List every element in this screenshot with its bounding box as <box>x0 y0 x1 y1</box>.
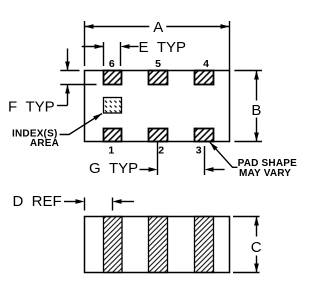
package body outline (top view) <box>85 71 230 142</box>
svg-text:F TYP: F TYP <box>8 99 55 116</box>
index area leader <box>60 114 103 135</box>
dimension E left-pointing arrowhead <box>121 44 130 49</box>
svg-text:MAY VARY: MAY VARY <box>239 168 291 179</box>
svg-text:4: 4 <box>203 58 209 70</box>
dimension E tick left <box>103 42 105 66</box>
pad 2 <box>149 129 168 142</box>
svg-text:5: 5 <box>155 58 161 70</box>
dimension E right-pointing arrowhead <box>95 44 104 49</box>
dimension F top extension line <box>60 70 79 72</box>
dimension B up arrowhead <box>254 71 259 80</box>
svg-text:6: 6 <box>109 58 115 70</box>
dimension D tick left <box>84 198 86 211</box>
dimension C line <box>256 217 258 273</box>
dimension C down arrowhead <box>254 264 259 273</box>
dimension G left-pointing arrow <box>205 167 214 172</box>
dimension E tick right <box>120 42 122 66</box>
pad 6 <box>104 71 122 85</box>
svg-text:A: A <box>153 19 163 36</box>
dimension E line left segment <box>82 46 104 48</box>
svg-text:G TYP: G TYP <box>89 160 138 177</box>
pad 4 <box>195 71 214 85</box>
dimension D left-pointing arrow <box>113 199 122 204</box>
dimension A extension line left <box>84 21 86 66</box>
svg-text:D REF: D REF <box>13 193 62 210</box>
dimension D tick right <box>112 198 114 211</box>
dimension E leader line <box>129 46 139 48</box>
index area arrowhead <box>93 114 102 121</box>
side view body outline <box>85 217 230 273</box>
pad shape arrowhead <box>210 142 218 150</box>
pad shape leader <box>210 142 238 167</box>
dimension G tick right <box>204 146 206 175</box>
dimension F bottom extension line <box>60 84 96 86</box>
svg-text:1: 1 <box>108 144 114 156</box>
dimension B line <box>256 71 258 142</box>
svg-text:E TYP: E TYP <box>139 39 187 56</box>
dimension F leader <box>57 105 68 107</box>
dimension B top extension line <box>234 70 262 72</box>
svg-text:3: 3 <box>196 144 202 156</box>
svg-text:2: 2 <box>158 144 164 156</box>
dimension A right arrowhead <box>221 24 230 29</box>
dimension A line <box>85 26 230 28</box>
svg-text:B: B <box>251 102 261 119</box>
dimension B down arrowhead <box>254 133 259 142</box>
index area pad <box>104 98 122 114</box>
dimension F up arrow <box>67 85 69 106</box>
pad 3 <box>195 129 214 142</box>
dimension G right-pointing arrow <box>140 169 152 171</box>
side view castellation 1 <box>104 217 123 273</box>
pad 1 <box>104 129 122 142</box>
side view castellation 2 <box>149 217 168 273</box>
dimension F down arrow <box>67 49 69 71</box>
dimension G tick left <box>157 141 159 175</box>
dimension D right-pointing arrow <box>64 201 79 203</box>
svg-text:AREA: AREA <box>30 138 59 149</box>
side view castellation 3 <box>195 217 214 273</box>
dimension B bottom extension line <box>234 141 262 143</box>
dimension C up arrowhead <box>254 217 259 226</box>
dimension C bottom extension line <box>233 272 260 274</box>
svg-text:C: C <box>251 239 262 256</box>
pad 5 <box>149 71 168 85</box>
dimension A left arrowhead <box>85 24 94 29</box>
dimension A extension line right <box>229 21 231 71</box>
dimension C top extension line <box>233 216 260 218</box>
